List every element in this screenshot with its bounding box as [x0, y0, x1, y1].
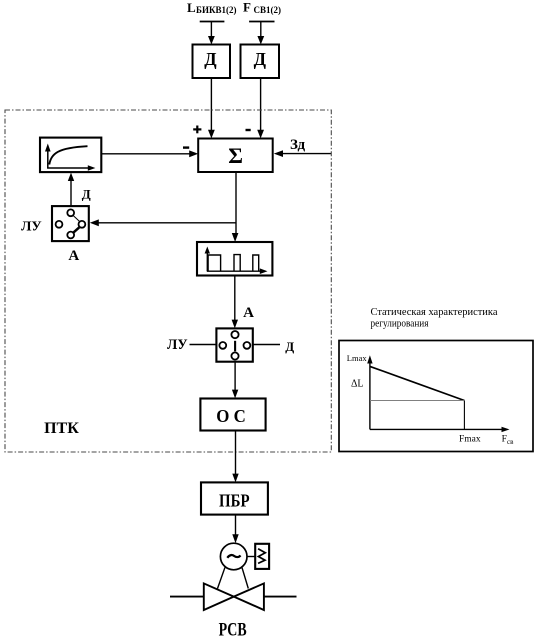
svg-text:Д: Д	[82, 186, 91, 201]
svg-text:Д: Д	[254, 49, 267, 69]
svg-text:Зд: Зд	[290, 137, 306, 153]
svg-text:ПБР: ПБР	[219, 490, 250, 510]
svg-text:Fmax: Fmax	[459, 435, 481, 445]
svg-text:ПТК: ПТК	[44, 420, 79, 437]
svg-text:Σ: Σ	[228, 143, 243, 168]
svg-text:О С: О С	[216, 406, 246, 426]
svg-text:F: F	[243, 0, 251, 15]
svg-text:А: А	[68, 248, 79, 264]
svg-text:L: L	[187, 0, 196, 15]
svg-text:Статическая характеристика: Статическая характеристика	[371, 306, 498, 318]
svg-text:ЛУ: ЛУ	[21, 219, 42, 234]
svg-text:Д: Д	[285, 339, 294, 354]
svg-text:А: А	[243, 305, 254, 321]
svg-text:св: св	[507, 438, 514, 446]
svg-text:ΔL: ΔL	[351, 379, 364, 390]
svg-text:Д: Д	[204, 49, 217, 69]
svg-text:БИКВ1(2): БИКВ1(2)	[196, 5, 236, 15]
svg-text:СВ1(2): СВ1(2)	[254, 5, 282, 15]
svg-text:ЛУ: ЛУ	[167, 337, 188, 353]
svg-text:Lmax: Lmax	[347, 353, 368, 363]
svg-text:регулирования: регулирования	[371, 318, 429, 330]
svg-text:РСВ: РСВ	[219, 620, 247, 641]
